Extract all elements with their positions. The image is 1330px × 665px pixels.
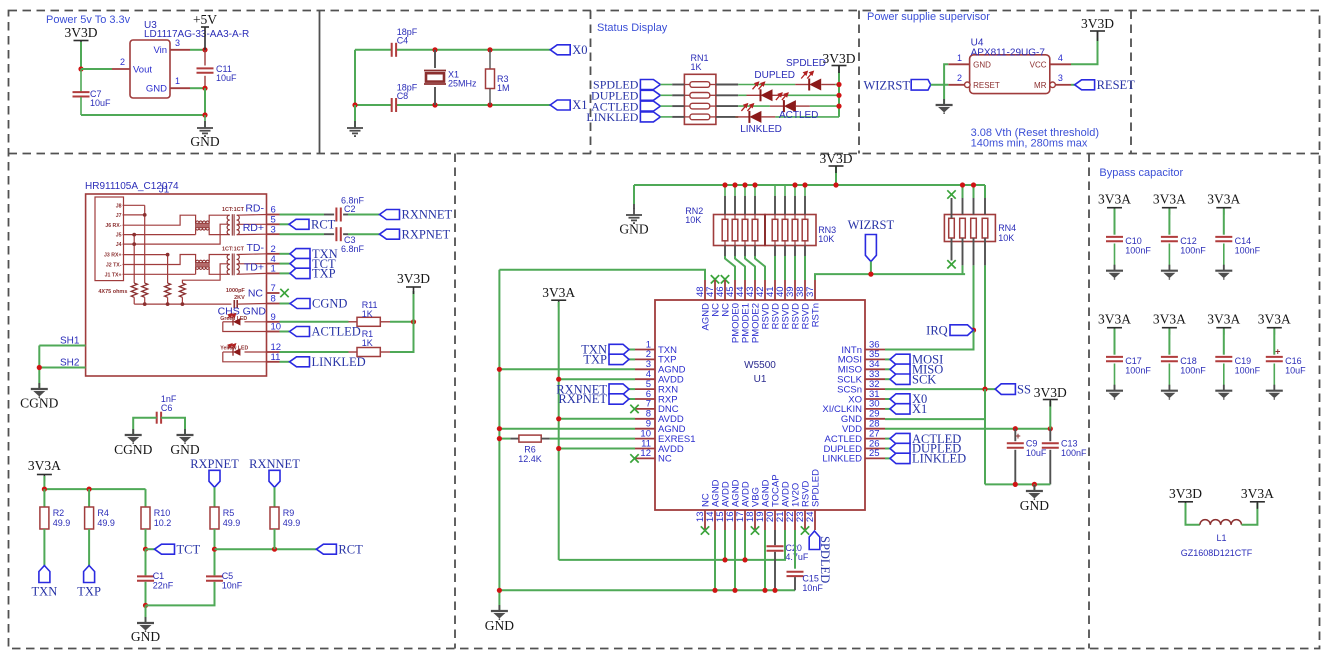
wire pin8 to CGND label [280, 303, 291, 305]
resistor R6 12.4K [519, 435, 541, 442]
svg-text:RD+: RD+ [243, 222, 264, 234]
svg-text:R6: R6 [524, 445, 536, 455]
svg-text:LINKLED: LINKLED [312, 355, 366, 369]
svg-text:TXP: TXP [312, 267, 336, 281]
label ACTLED DUPLED LINKLED (chip) [885, 438, 890, 440]
U4 pin 3 MR (inverted) [1050, 82, 1056, 88]
svg-text:R5: R5 [223, 508, 235, 518]
resistor R11 1K [357, 317, 380, 326]
power flag 3V3D (right) [1049, 401, 1051, 429]
capacitor C20 4.7uF (TOCAP) [774, 530, 776, 545]
jack capacitor 1000pF 2KV [234, 300, 237, 308]
junction RCT row right [272, 547, 277, 552]
svg-text:RXPNET: RXPNET [402, 227, 451, 241]
capacitor C15 10nF (1V2O) [794, 530, 796, 569]
wire C18 [1168, 329, 1170, 355]
LED LINKLED [749, 111, 761, 123]
ground CGND (shield) [31, 383, 48, 398]
RN1 element 1 [690, 82, 710, 88]
capacitor C10 100nF [1106, 237, 1123, 241]
label LINKLED (jack) [290, 357, 310, 367]
wire SPDLED to RN1 [660, 84, 672, 86]
capacitor C13 100nF [1049, 429, 1051, 442]
jack wire J2 TX- to choke2 [123, 255, 196, 265]
wire C19 [1223, 329, 1225, 355]
U4 pin 1 GND [948, 63, 969, 65]
svg-text:X0: X0 [572, 43, 587, 57]
svg-text:1000pF: 1000pF [226, 288, 246, 294]
RN element col 745 [742, 219, 748, 241]
resistor R5 49.9 [210, 507, 219, 529]
wire RSTn pin37 to WIZRST line [815, 274, 965, 280]
ground GND (right) [1033, 484, 1035, 490]
svg-text:TD-: TD- [247, 242, 265, 254]
svg-text:RESET: RESET [973, 81, 1000, 90]
jack column J5/J4 to R1 [133, 235, 135, 284]
svg-text:10K: 10K [818, 234, 834, 244]
wire 3V3D to node [80, 42, 82, 69]
wire bottom GND rail right [985, 483, 1050, 485]
crystal X1 25MHz [434, 50, 436, 68]
RN element col 725 [722, 219, 728, 241]
wire RN4 col3 to IRQ and INTn [973, 265, 975, 330]
divider power/crystal (solid) [319, 11, 321, 154]
wire R10 to TCT node [145, 529, 147, 549]
label CGND [290, 299, 310, 309]
jack choke 2 (TX) [196, 263, 210, 268]
svg-text:C14: C14 [1235, 236, 1252, 246]
jack 75 ohm resistors [131, 283, 137, 297]
wire R2 to TXN [43, 529, 45, 566]
svg-text:RESET: RESET [1097, 78, 1136, 92]
svg-text:GND: GND [170, 442, 199, 457]
svg-text:R4: R4 [97, 508, 109, 518]
RN3 column wires to rail [774, 185, 776, 196]
jack choke2 top exit to transformer2 [209, 255, 230, 263]
RN element col 755 [752, 219, 758, 241]
power flag 3V3A (C19) [1216, 328, 1231, 335]
wire RXNNET to R9 [274, 487, 276, 507]
junction +5V node [202, 47, 207, 52]
label ACTLED [640, 101, 660, 111]
RN1 element 4 [690, 114, 710, 120]
svg-text:1K: 1K [362, 338, 373, 348]
wire pin10 to ACTLED [280, 331, 290, 333]
ground GND (termination) [145, 605, 147, 622]
jack choke 1 (RX) [196, 223, 210, 228]
jack wire J5 [123, 234, 196, 236]
label X0 [550, 45, 570, 55]
svg-text:10: 10 [271, 322, 282, 333]
label TCT [155, 544, 175, 554]
RN4 top leads [951, 198, 953, 218]
ground (C14) [1215, 265, 1232, 280]
svg-text:12.4K: 12.4K [518, 454, 542, 464]
wire pin5 to RCT [280, 223, 290, 225]
junction C1 bottom [143, 603, 148, 608]
wire LED LINKLED to 3V3D rail [761, 116, 775, 118]
svg-text:100nF: 100nF [1235, 246, 1261, 256]
svg-text:100nF: 100nF [1125, 246, 1151, 256]
svg-text:WIZRST: WIZRST [863, 79, 910, 93]
svg-text:3V3A: 3V3A [1207, 192, 1240, 207]
wire pin29 GND to bottom [885, 419, 985, 484]
chip top pins 48-37 [704, 280, 706, 300]
wire C6 left to CGND [133, 418, 157, 434]
label TXP (termination) [84, 566, 95, 583]
wire pin6 to C2 [280, 214, 325, 216]
label MOSI MISO SCK [885, 358, 890, 360]
label TXN TXP (chip) [629, 349, 635, 351]
capacitor C5 10nF [206, 576, 223, 580]
svg-text:Bypass capacitor: Bypass capacitor [1099, 167, 1183, 179]
svg-text:4: 4 [1058, 53, 1063, 63]
wire VCC to 3V3D [1071, 38, 1098, 64]
svg-text:3V3A: 3V3A [1207, 312, 1240, 327]
resistor R9 49.9 [270, 507, 279, 529]
svg-text:24: 24 [805, 512, 816, 523]
svg-text:CGND: CGND [114, 442, 153, 457]
wire RN1 to LED DUPLED [716, 94, 738, 96]
label X0 X1 (chip) [885, 398, 890, 400]
svg-text:4.7uF: 4.7uF [785, 552, 809, 562]
svg-text:R2: R2 [53, 508, 65, 518]
svg-text:GND: GND [485, 618, 514, 633]
svg-text:RD-: RD- [245, 203, 264, 215]
svg-text:SCK: SCK [912, 372, 936, 386]
svg-text:J6 RX-: J6 RX- [105, 223, 121, 229]
svg-text:49.9: 49.9 [97, 518, 115, 528]
supervisor U4 APX811-29UG-7 [970, 55, 1050, 94]
jack choke1 top exit to transformer1 [209, 215, 230, 223]
svg-text:GND: GND [1020, 498, 1049, 513]
svg-text:100nF: 100nF [1180, 366, 1206, 376]
svg-text:Green LED: Green LED [220, 316, 247, 322]
svg-text:CGND: CGND [312, 297, 347, 311]
svg-text:C8: C8 [397, 91, 409, 101]
junction RCT row left [212, 547, 217, 552]
svg-text:TXN: TXN [32, 585, 58, 599]
power flag +5V [204, 27, 206, 50]
label RXPNET [380, 229, 400, 239]
resistor network RN2 10K [714, 215, 766, 246]
svg-text:1K: 1K [691, 62, 702, 72]
svg-text:1: 1 [175, 76, 180, 86]
svg-text:C5: C5 [222, 571, 234, 581]
jack center tap 2 to R4 [182, 264, 228, 283]
svg-text:3V3A: 3V3A [1241, 486, 1274, 501]
chip left pins 1-12 [635, 349, 655, 351]
svg-text:J3 RX+: J3 RX+ [104, 253, 121, 259]
svg-text:+: + [1275, 347, 1280, 357]
RN element col 805 [802, 219, 808, 241]
resistor R2 49.9 [43, 489, 45, 507]
svg-text:SPDLED: SPDLED [810, 469, 821, 507]
svg-text:GND: GND [619, 222, 648, 237]
labels TXN TCT TXP (jack) [280, 253, 291, 255]
svg-text:J2 TX-: J2 TX- [106, 263, 122, 269]
rail2 column pins 14 16 19 [714, 530, 716, 590]
power flag 3V3D (supervisor) [1097, 31, 1099, 41]
svg-text:R9: R9 [283, 508, 295, 518]
svg-text:3V3A: 3V3A [1098, 312, 1131, 327]
svg-text:C1: C1 [153, 571, 165, 581]
label LINKLED [640, 112, 660, 122]
chip bottom pins 13-24 [704, 510, 706, 530]
wire SH2 [39, 367, 85, 369]
label X1 [550, 100, 570, 110]
chip bottom rail1 3V3A [559, 530, 785, 560]
wire R5 to RCT row [214, 529, 216, 549]
transformer T1 secondary to pins [237, 214, 267, 217]
wire RN4 col4 to SS and pin29 [984, 238, 986, 265]
svg-text:J8: J8 [116, 203, 122, 209]
wire C6 right to GND [161, 418, 185, 434]
svg-text:Status Display: Status Display [597, 22, 668, 34]
jack inner connector box [95, 197, 124, 281]
capacitor C11 10uF [204, 50, 206, 66]
jack choke1 bottom exit [209, 228, 230, 235]
svg-text:100nF: 100nF [1061, 448, 1087, 458]
wire pin12 to R1 [280, 351, 349, 353]
RN2 bends to pins 45-42 [724, 246, 726, 257]
jack column J3 to R3 [167, 255, 169, 284]
jack right pins [267, 214, 280, 216]
wire pin3 to C3 [280, 233, 325, 235]
svg-text:2KV: 2KV [234, 295, 245, 301]
3V3A vertical (center) [558, 302, 560, 560]
wire pin11 AVDD [559, 448, 635, 450]
wire TCT node to label [146, 548, 155, 550]
svg-text:TD+: TD+ [244, 261, 264, 273]
wire MR to RESET label [1071, 84, 1075, 86]
wire bottom X1 line [355, 104, 392, 106]
left AGND vertical [498, 270, 500, 606]
svg-text:Vin: Vin [153, 45, 167, 56]
node junction 3V3D/C7/Vout [78, 66, 83, 71]
ground (C18) [1161, 385, 1178, 400]
svg-text:10nF: 10nF [222, 581, 243, 591]
svg-text:J5: J5 [116, 233, 122, 239]
svg-text:VCC: VCC [1030, 61, 1047, 70]
label RCT [289, 219, 309, 229]
ground (C19) [1215, 385, 1232, 400]
svg-text:37: 37 [805, 286, 816, 297]
power flag 3V3D [74, 41, 89, 48]
U3 pin 3 Vin [170, 49, 190, 51]
svg-text:4X75 ohms: 4X75 ohms [98, 289, 127, 295]
capacitor C3 6.8nF [336, 227, 340, 241]
label SS [995, 384, 1015, 395]
divider center/bypass [1088, 154, 1090, 649]
junction rail 3V3D [833, 182, 838, 187]
wire R11 to 3V3D node [380, 321, 390, 323]
resistor network RN3 10K [765, 215, 816, 246]
svg-text:1CT:1CT: 1CT:1CT [222, 247, 245, 253]
label RXNNET [380, 210, 400, 220]
capacitor C17 100nF [1106, 357, 1123, 361]
label RCT (termination) [316, 544, 336, 554]
capacitor C14 100nF [1215, 237, 1232, 241]
wire C2 to RXNNET [343, 214, 348, 216]
svg-text:RCT: RCT [311, 218, 336, 232]
svg-text:SPDLED: SPDLED [818, 536, 832, 583]
wire pin4 AVDD [559, 378, 635, 380]
wire GND pin down [944, 64, 948, 104]
wire LED SPDLED to 3V3D rail [821, 84, 835, 86]
svg-text:3V3D: 3V3D [397, 271, 430, 286]
jack choke1 bottom entry (J5) [195, 228, 197, 235]
U3 pin 2 Vout [112, 68, 130, 70]
svg-text:RXNNET: RXNNET [402, 208, 453, 222]
no-connect pins 47 46 [711, 275, 719, 283]
svg-text:1M: 1M [497, 83, 510, 93]
ground GND (C6) [177, 429, 194, 444]
wire top X0 line [355, 49, 392, 51]
capacitor C9 10uF polarized [1014, 429, 1016, 442]
junction rail rows [836, 82, 841, 87]
capacitor C1 22nF [145, 549, 147, 575]
wire ACTLED to RN1 [660, 105, 672, 107]
resistor R1 1K [357, 348, 380, 357]
junction VDD rail C9 C13 [1013, 426, 1018, 431]
wire crystal left vertical [354, 50, 356, 105]
svg-text:U1: U1 [754, 374, 767, 385]
svg-text:1K: 1K [362, 309, 373, 319]
svg-text:+: + [1015, 431, 1020, 441]
svg-text:Power supplie supervisor: Power supplie supervisor [867, 11, 990, 23]
capacitor C2 6.8nF [336, 208, 340, 222]
transformer T2 (TX) 1CT:1CT [227, 255, 230, 260]
ground GND (U3) [204, 115, 206, 127]
junction SH2 [37, 365, 42, 370]
wire LED DUPLED to 3V3D rail [773, 94, 787, 96]
svg-text:C17: C17 [1125, 356, 1142, 366]
jack green LED [245, 321, 267, 323]
svg-text:3V3D: 3V3D [65, 25, 98, 40]
capacitor C12 100nF [1161, 237, 1178, 241]
svg-text:WIZRST: WIZRST [848, 218, 895, 232]
wire DUPLED to RN1 [660, 94, 672, 96]
svg-text:C15: C15 [802, 574, 819, 584]
wire SH1 [39, 345, 85, 347]
supervisor box right edge [1130, 11, 1132, 154]
svg-text:3V3D: 3V3D [1081, 16, 1114, 31]
wire pin9 to R11 [280, 321, 349, 323]
svg-text:100nF: 100nF [1125, 366, 1151, 376]
svg-text:X1: X1 [572, 98, 587, 112]
power flag 3V3A (center) [551, 300, 566, 307]
ground (C17) [1106, 385, 1123, 400]
ground (supervisor) [936, 99, 953, 114]
svg-text:TXP: TXP [77, 585, 101, 599]
wire SS down to pin29 corner [984, 389, 986, 419]
svg-text:3V3D: 3V3D [820, 151, 853, 166]
svg-text:10nF: 10nF [802, 583, 823, 593]
U4 pin 4 VCC [1050, 63, 1071, 65]
svg-text:RSTn: RSTn [810, 303, 821, 327]
wire RN1 to LED ACTLED [716, 105, 738, 107]
svg-text:ACTLED: ACTLED [779, 110, 818, 121]
resistor R3 1M [489, 50, 491, 69]
jack wire J8 [123, 204, 145, 206]
label RESET [1075, 80, 1095, 90]
wire pin32 SCSn to SS [885, 388, 995, 390]
svg-text:7: 7 [271, 283, 276, 294]
svg-text:140ms min, 280ms max: 140ms min, 280ms max [971, 138, 1088, 150]
jack column J8/J7 to R2 [144, 205, 146, 283]
svg-text:10K: 10K [998, 233, 1014, 243]
svg-text:C13: C13 [1061, 439, 1078, 449]
capacitor C7 10uF [80, 69, 82, 92]
LED DUPLED [761, 89, 773, 101]
junction bottom rail right [1013, 482, 1018, 487]
wire pin10 EXRES1 via R6 [499, 438, 510, 440]
wire C12 [1168, 209, 1170, 235]
svg-text:LINKLED: LINKLED [822, 454, 862, 465]
jack termination bus [134, 303, 231, 305]
RN element col 795 [792, 219, 798, 241]
no-connect pin 7 [280, 289, 288, 297]
RN element col 785 [782, 219, 788, 241]
svg-text:100nF: 100nF [1180, 246, 1206, 256]
svg-text:DUPLED: DUPLED [754, 70, 795, 81]
ground drop from rail [633, 185, 635, 204]
svg-text:Vout: Vout [133, 65, 152, 76]
svg-text:3: 3 [1058, 73, 1063, 83]
label SPDLED [640, 80, 660, 90]
ground (C12) [1161, 265, 1178, 280]
capacitor C8 18pF [392, 98, 396, 112]
svg-text:C18: C18 [1180, 356, 1197, 366]
RN element col 735 [732, 219, 738, 241]
svg-text:10uF: 10uF [216, 73, 237, 83]
svg-text:RXPNET: RXPNET [190, 457, 239, 471]
svg-text:SS: SS [1017, 382, 1031, 396]
wire WIZRST to RESET pin [931, 84, 949, 86]
wire C3 to RXPNET [343, 233, 348, 235]
svg-text:49.9: 49.9 [223, 518, 241, 528]
power flag 3V3A (C10) [1107, 208, 1122, 215]
svg-text:CGND: CGND [20, 396, 59, 411]
label RXNNET RXPNET (chip) [629, 388, 635, 390]
svg-text:49.9: 49.9 [283, 518, 301, 528]
power flag 3V3A (C12) [1162, 208, 1177, 215]
no-connect pin 7 DNC [630, 405, 638, 413]
wire RN1 to LED SPDLED [716, 84, 738, 86]
power flag 3V3A (L1) [1250, 502, 1265, 509]
svg-text:C12: C12 [1180, 236, 1197, 246]
wire R4 to TXP [88, 529, 90, 566]
svg-text:3V3A: 3V3A [542, 285, 575, 300]
jack wire J6 RX- to choke [123, 215, 196, 225]
svg-text:J4: J4 [116, 242, 122, 248]
wire shield to CGND [38, 346, 40, 389]
RN1 element 3 [690, 103, 710, 109]
svg-text:C2: C2 [344, 204, 356, 214]
svg-text:LD1117AG-33-AA3-A-R: LD1117AG-33-AA3-A-R [144, 29, 249, 40]
ground (C16) [1266, 385, 1283, 400]
wire AGND pin48 feed [499, 270, 705, 280]
svg-text:3V3D: 3V3D [823, 51, 856, 66]
wire RN1 to LED LINKLED [716, 116, 738, 118]
capacitor C18 100nF [1161, 357, 1178, 361]
svg-text:C6: C6 [161, 403, 173, 413]
RN4 bottom leads [951, 238, 953, 261]
transformer T2 secondary to pins [237, 253, 267, 256]
wire RCT row [215, 548, 317, 550]
svg-text:2: 2 [120, 57, 125, 67]
